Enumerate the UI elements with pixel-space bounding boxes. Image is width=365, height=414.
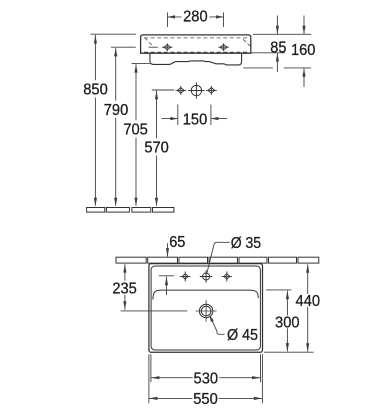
dim 160 extensions [243,67,311,69]
basin underside profile [150,53,242,65]
dim 300 line [286,291,288,352]
drain outer circle [199,304,213,318]
floor hatch bar [87,208,174,213]
dim 705 line [135,64,137,206]
dim 850 line [94,35,96,206]
dim 85 arrows [276,16,278,73]
svg-text:300: 300 [275,314,300,331]
tap hole symbol left (front view) [162,43,173,51]
basin inner rect (plan) [151,266,260,350]
dim 440 bottom extension [264,351,314,353]
svg-text:Ø 45: Ø 45 [227,327,258,344]
svg-text:235: 235 [112,280,137,297]
tap hole symbol right (front view) [218,43,229,51]
leader diameter 45 [211,317,225,334]
bowl back edge [153,290,258,299]
basin rim outline (front view) [141,35,251,53]
dim 570 line [156,91,158,206]
dim 235 line [124,264,126,310]
wall hatch bar [116,257,319,263]
dim 530 line [151,377,261,379]
svg-text:570: 570 [144,140,169,157]
svg-text:160: 160 [291,42,316,59]
dim 530 extensions [151,354,261,382]
dim 65 lower arrow [159,276,174,295]
dim 280 arrows [168,16,224,18]
svg-text:65: 65 [169,234,185,251]
drain horizontal centerline [196,310,217,312]
hidden edge dashed top [144,37,248,39]
dim 790 line [115,48,117,206]
svg-text:280: 280 [183,8,208,25]
dim 300 top extension [266,289,292,291]
hidden slope dash right [243,39,250,46]
centerline dash at tap row [149,46,159,48]
dim 150 ticks [178,105,211,126]
svg-text:790: 790 [104,102,129,119]
svg-text:550: 550 [193,391,218,408]
dim 85 extensions [252,34,312,53]
basin outer rect (plan) [149,264,263,353]
dim 570 extension [152,89,174,91]
svg-text:530: 530 [194,371,219,388]
tap hole circle center (plan) [200,270,213,283]
dim 440 line [307,264,309,351]
dim 280 ticks [168,13,224,28]
svg-text:850: 850 [83,82,108,99]
mounting hole diamond left [175,86,186,95]
drain vertical centerline [205,300,207,322]
tap hole diamond right (plan) [222,271,233,281]
dim 150 arrows [162,118,228,120]
mounting hole circle-cross center [188,82,204,98]
dim 705 extension [132,62,150,64]
hidden slope dash left [145,38,155,48]
tap hole diamond left (plan) [180,271,191,281]
leader diameter 35 [207,242,230,272]
svg-text:Ø 35: Ø 35 [231,235,261,252]
drain inner circle [201,306,211,316]
svg-text:150: 150 [183,112,208,129]
dim 850 extension [91,33,137,35]
svg-text:440: 440 [296,293,321,310]
mounting hole diamond right [206,86,217,95]
dim 550 extensions [149,354,263,403]
dim 790 extension [111,46,136,48]
svg-text:705: 705 [123,122,148,139]
svg-text:85: 85 [270,40,286,57]
dim 550 line [149,397,263,399]
dim 65 upper arrow [167,243,169,256]
dim 160 arrows [303,16,305,88]
dim 235 extension / drain axis [121,310,188,312]
hidden edge dashed bottom [144,51,248,53]
